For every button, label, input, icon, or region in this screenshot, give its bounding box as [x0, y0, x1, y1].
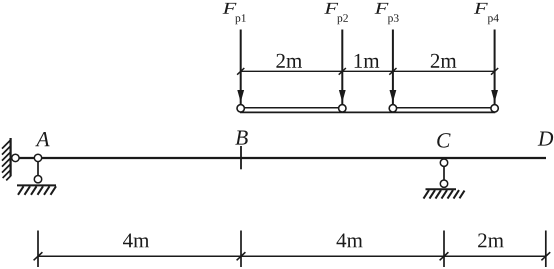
label 2m top right: [431, 54, 457, 68]
ground line below C: [426, 188, 457, 190]
force arrow F_p4: [491, 30, 498, 105]
label B: [235, 131, 247, 145]
dimension tick slash at F_p2: [339, 68, 346, 75]
label C: [437, 133, 450, 147]
dimension tick slash at F_p1: [237, 68, 244, 75]
ground line below A: [17, 184, 56, 186]
dimension tick slash at C: [440, 252, 449, 260]
wall pin circle: [12, 154, 19, 161]
roller circle below A: [34, 176, 41, 183]
ground hatching below A: [18, 186, 56, 195]
label 4m bottom middle: [336, 233, 362, 247]
dimension line top: [241, 70, 495, 72]
dimension line bottom: [38, 255, 546, 257]
hinge circle 4: [491, 105, 498, 112]
dimension tick slash at B: [237, 252, 246, 260]
force arrow F_p2: [339, 30, 346, 105]
roller circle below beam at C: [440, 159, 447, 166]
secondary beam top chord right: [394, 107, 493, 109]
link A to roller: [37, 162, 39, 176]
label 2m bottom right: [478, 233, 504, 247]
secondary beam top chord left: [242, 107, 341, 109]
ground hatching below C: [424, 190, 465, 199]
dimension tick slash at F_p4: [491, 68, 498, 75]
dimension tick slash at A: [34, 252, 43, 260]
label A: [35, 132, 49, 146]
secondary beam bottom chord: [240, 111, 495, 113]
label 1m top: [355, 54, 380, 68]
dimension extension line at C: [443, 231, 445, 268]
link C to roller: [443, 166, 445, 180]
label F_p2: [324, 3, 348, 24]
dimension tick slash at F_p3: [389, 68, 396, 75]
wall at left: [2, 138, 11, 180]
dimension tick slash at D: [541, 252, 550, 260]
dimension extension line at A: [37, 231, 39, 268]
main beam A-D: [15, 157, 546, 159]
label F_p1: [223, 3, 246, 24]
label D: [538, 132, 553, 146]
dimension extension line at B: [240, 231, 242, 268]
roller circle lower at C: [440, 180, 447, 187]
hinge circle 3: [389, 105, 396, 112]
hinge circle 1: [237, 105, 244, 112]
hinge circle A: [34, 154, 41, 161]
hinge tick at B: [240, 146, 242, 169]
force arrow F_p3: [390, 30, 397, 105]
hinge circle 2: [339, 105, 346, 112]
dimension extension line at D: [545, 231, 547, 268]
label F_p4: [474, 3, 499, 24]
label 2m top left: [276, 54, 302, 68]
label F_p3: [375, 3, 399, 24]
force arrow F_p1: [237, 30, 244, 105]
label 4m bottom left: [123, 233, 149, 247]
